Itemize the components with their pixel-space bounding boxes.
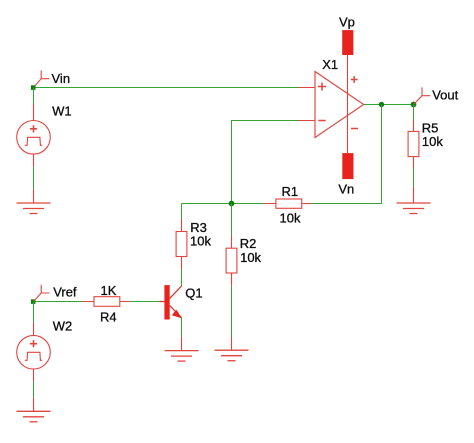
wire Q1 emitter to ground [181,318,183,337]
op-amp X1 [298,55,364,153]
svg-text:1K: 1K [101,283,117,298]
svg-text:Vp: Vp [339,15,355,30]
ground (under Q1) [165,337,199,361]
svg-text:W2: W2 [53,319,72,334]
resistor R3 [176,219,187,270]
ground (under R2) [215,337,249,361]
svg-text:Vout: Vout [432,87,458,102]
svg-text:R1: R1 [282,184,299,199]
svg-text:Vn: Vn [338,181,354,196]
probe Vref [34,285,50,301]
wire feedback corner down to R3 [181,204,183,219]
wire op-amp minus input from feedback node [232,121,299,204]
resistor R1 [264,199,311,208]
svg-text:Vref: Vref [53,284,77,299]
node Vout junction [411,102,417,108]
resistor R2 [226,236,237,286]
node output junction [379,102,384,107]
wire R2 to ground [231,286,233,337]
svg-text:R2: R2 [240,236,257,251]
resistor R4 [83,297,130,307]
svg-text:Vin: Vin [52,71,71,86]
wire R5 to ground [413,168,415,187]
wire Vref node down to W2 [33,302,35,323]
svg-text:10k: 10k [422,134,443,149]
ground (under W1) [17,190,51,214]
node Vref junction [31,299,36,304]
svg-text:Q1: Q1 [185,285,202,300]
wire Vref node to R4 [34,301,83,303]
probe Vout [414,87,430,104]
ground (under W2) [17,398,51,422]
voltage source W1 [17,104,51,167]
probe Vin [34,70,50,87]
wire R4 to Q1 base [130,301,160,303]
wire junction down to R2 [231,204,233,236]
svg-text:10k: 10k [190,234,211,249]
terminal Vp [342,30,353,55]
wire W2 to ground [33,382,35,398]
svg-text:X1: X1 [322,57,338,72]
wire feedback down and left to R1 [311,105,382,204]
node feedback junction [229,201,235,207]
wire op-amp output [364,104,414,106]
svg-text:10k: 10k [240,250,261,265]
svg-text:W1: W1 [52,104,72,119]
resistor R5 [408,121,419,168]
svg-text:10k: 10k [280,211,301,226]
svg-text:R4: R4 [100,309,117,324]
terminal Vn [342,153,353,179]
wire Vin node down to W1 [33,88,35,105]
transistor Q1 [160,285,183,319]
wire W1 to ground [33,167,35,190]
ground (under R5) [397,187,431,214]
voltage source W2 [17,323,51,382]
wire Vout node down to R5 [413,105,415,121]
wire Vin node to op-amp plus input [34,87,299,89]
node Vin junction [31,85,36,90]
wire R3 to Q1 collector [181,270,183,287]
wire R1 left to feedback junction and R3 branch [182,203,265,205]
